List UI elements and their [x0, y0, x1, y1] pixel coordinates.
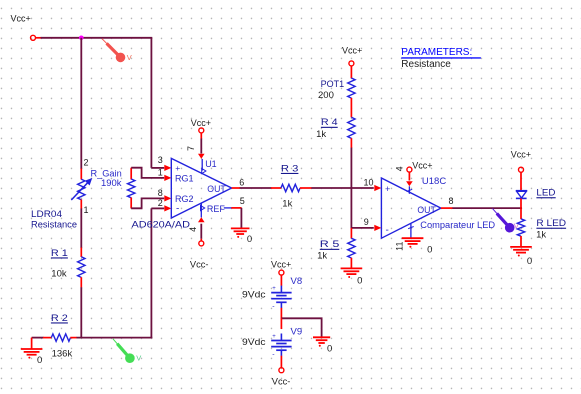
- battery V8 9Vdc: [271, 286, 291, 311]
- svg-text:OUT: OUT: [207, 184, 226, 194]
- svg-text:1: 1: [158, 168, 163, 178]
- svg-text:Vcc+: Vcc+: [191, 118, 211, 128]
- ground 0 (U1 REF): [231, 228, 252, 245]
- svg-text:8: 8: [158, 188, 163, 198]
- svg-text:R 5: R 5: [320, 239, 340, 249]
- U18C pin 8 output stub: [441, 207, 453, 209]
- pin number 4 U18C (rotated): [395, 166, 405, 171]
- pin number 7 (rotated): [186, 146, 196, 151]
- svg-text:4: 4: [188, 227, 198, 232]
- svg-text:Vcc-: Vcc-: [190, 260, 209, 270]
- svg-text:V8: V8: [291, 276, 303, 287]
- U18C label -: [386, 225, 389, 236]
- svg-text:POT1: POT1: [321, 79, 345, 89]
- potentiometer POT1 200: [348, 66, 355, 118]
- value 200: [318, 90, 334, 101]
- U1 pin7 inner stub: [202, 159, 206, 174]
- resistor R3 1k: [271, 184, 312, 191]
- reference designator U1: [205, 159, 217, 169]
- svg-text:PARAMETERS:: PARAMETERS:: [401, 47, 472, 58]
- svg-text:Vcc+: Vcc+: [11, 13, 31, 23]
- svg-text:1k: 1k: [282, 199, 292, 210]
- svg-text:REF: REF: [207, 204, 226, 214]
- svg-text:0: 0: [357, 275, 362, 286]
- op-amp U1 triangle: [171, 158, 231, 218]
- U1 label -: [176, 204, 179, 215]
- pin number 6: [239, 178, 244, 188]
- svg-text:190k: 190k: [101, 178, 122, 188]
- power symbol Vcc+ (top left): [11, 13, 42, 40]
- svg-text:-: -: [176, 204, 179, 215]
- label R 5: [320, 239, 340, 250]
- wire V9 to Vcc-: [280, 356, 282, 368]
- svg-text:R 3: R 3: [281, 163, 299, 173]
- pin number 1 (U1): [158, 168, 163, 178]
- U1 label RG2: [175, 194, 194, 204]
- pin number 4 (rotated): [188, 227, 198, 232]
- svg-text:2: 2: [84, 158, 89, 168]
- svg-text:0: 0: [427, 244, 432, 255]
- svg-text:V: V: [136, 354, 141, 363]
- svg-text:11: 11: [395, 242, 405, 251]
- wire R1 to bottom rail: [80, 287, 82, 338]
- value 1k (R4): [316, 129, 326, 140]
- pin number 11 (rotated): [395, 242, 405, 251]
- pin 1 arrow: [164, 175, 171, 181]
- svg-text:136k: 136k: [52, 349, 73, 360]
- comparator U18C triangle: [381, 178, 441, 238]
- wire bottom rail: [77, 337, 153, 339]
- pin number 5: [240, 196, 245, 206]
- label Comparateur LED: [420, 220, 495, 230]
- wire Vcc+ to pin 7: [198, 133, 205, 159]
- svg-text:-: -: [386, 225, 389, 236]
- pin number 1 (LDR04 bottom): [84, 205, 89, 215]
- svg-text:5: 5: [240, 196, 245, 206]
- ground 0 (V8/V9 node): [313, 337, 332, 354]
- wire Vcc+ to V8: [280, 275, 282, 286]
- svg-text:0: 0: [37, 355, 42, 366]
- wire R4 down across pin10 node: [350, 148, 352, 229]
- wire V8/V9 node to ground: [281, 318, 322, 337]
- svg-text:V9: V9: [291, 326, 303, 337]
- ground 0 (U18C): [402, 238, 433, 255]
- pin number 3: [158, 155, 163, 165]
- svg-text:0: 0: [527, 256, 532, 267]
- power symbol Vcc+ (POT1): [342, 46, 362, 66]
- pin number 10: [364, 177, 374, 187]
- svg-text:+: +: [175, 163, 180, 173]
- pin 8 arrow: [164, 195, 171, 201]
- U1 pin 5 REF wire: [224, 208, 242, 228]
- power symbol Vcc+ (U18C pin 4): [407, 160, 433, 172]
- ground 0 (R2): [21, 338, 43, 366]
- svg-text:V: V: [127, 53, 132, 62]
- svg-text:Resistance: Resistance: [401, 59, 451, 70]
- U1 pin 6 output stub: [232, 187, 240, 189]
- svg-text:Vcc+: Vcc+: [342, 46, 362, 56]
- gain resistor RG between RG1 and RG2: [128, 168, 135, 209]
- svg-text:1k: 1k: [317, 251, 327, 262]
- wire V8 to junction: [280, 308, 282, 319]
- power symbol Vcc+ (LED): [511, 149, 531, 172]
- U1 label OUT: [207, 184, 226, 194]
- svg-text:9Vdc: 9Vdc: [242, 337, 266, 348]
- svg-text:Vcc+: Vcc+: [412, 160, 432, 170]
- label Resistance (LDR04 value): [31, 220, 77, 230]
- value 1k (R_LED): [536, 230, 546, 241]
- value 1k (R3): [282, 199, 292, 210]
- wire hook RG bottom to pin 8: [131, 198, 164, 208]
- text PARAMETERS:: [401, 47, 481, 58]
- wire hook RG top to pin 1: [131, 168, 164, 178]
- label R 4: [321, 117, 338, 128]
- pin 9 arrow: [374, 225, 381, 231]
- label R LED: [536, 218, 566, 229]
- ground 0 (R_LED): [510, 247, 532, 267]
- wire R3 to U18C pin 10: [311, 187, 373, 189]
- power symbol Vcc- (V9): [272, 368, 291, 387]
- label R 3: [281, 163, 299, 174]
- svg-text:10k: 10k: [51, 269, 67, 280]
- svg-text:Vcc-: Vcc-: [272, 376, 291, 386]
- wire from Vcc+ rail down to LDR04: [80, 38, 82, 169]
- voltage probe V (purple) on LED node: [493, 209, 519, 233]
- svg-text:10: 10: [364, 177, 374, 187]
- pin number 8 (U18C): [449, 196, 454, 206]
- label R_Gain: [91, 169, 122, 179]
- svg-text:LED: LED: [536, 188, 556, 198]
- U18C label OUT: [417, 205, 436, 215]
- wire junction to V9: [280, 318, 282, 329]
- wire bottom rail up to U1 pin 2: [151, 208, 164, 338]
- label R 1: [51, 248, 68, 259]
- battery V9 9Vdc: [271, 334, 291, 359]
- svg-text:-: -: [272, 352, 275, 359]
- value 1k (R5): [317, 251, 327, 262]
- value 9Vdc (V9): [242, 337, 266, 348]
- junction at (81,38): [79, 36, 84, 41]
- variable resistor LDR04 R_Gain 190k: [71, 169, 92, 209]
- U1 label RG1: [175, 174, 194, 184]
- reference designator V9: [291, 326, 303, 337]
- pin 2 arrow: [164, 205, 171, 211]
- svg-text:1: 1: [84, 205, 89, 215]
- svg-text:0: 0: [247, 234, 252, 245]
- U1 pin 4 stub: [198, 203, 205, 222]
- voltage probe V (green) on bottom rail: [113, 339, 141, 363]
- value 136k: [52, 349, 73, 360]
- wire Vcc+ rail down to U1 pin 3: [151, 38, 164, 168]
- wire pin 4 to Vcc-: [200, 224, 202, 242]
- wire ground to R2: [32, 337, 44, 339]
- svg-text:-: -: [272, 304, 275, 311]
- pin number 9: [364, 217, 369, 227]
- pin number 2 (U1): [158, 198, 163, 208]
- reference designator U18C: [422, 176, 446, 187]
- label POT1: [321, 79, 345, 89]
- resistor R5 1k: [348, 228, 355, 269]
- value 10k: [51, 269, 67, 280]
- value 190k: [101, 178, 122, 188]
- pin 3 arrow: [164, 165, 171, 171]
- label AD620A/AD: [132, 219, 191, 230]
- svg-text:+: +: [272, 334, 276, 340]
- U18C label +: [385, 184, 390, 194]
- svg-text:R LED: R LED: [536, 218, 566, 228]
- svg-text:Resistance: Resistance: [31, 220, 77, 230]
- power symbol Vcc+ (V8): [271, 259, 291, 275]
- resistor R4 1k: [348, 117, 355, 148]
- svg-text:R 2: R 2: [51, 313, 68, 323]
- svg-text:1k: 1k: [536, 230, 546, 241]
- svg-text:200: 200: [318, 90, 334, 101]
- svg-text:U18C: U18C: [422, 176, 446, 187]
- svg-text:OUT: OUT: [417, 205, 436, 215]
- text Resistance (parameter): [401, 59, 451, 70]
- resistor R2 136k: [43, 334, 77, 341]
- svg-text:8: 8: [449, 196, 454, 206]
- svg-text:2: 2: [158, 198, 163, 208]
- U18C pin 4 wire: [406, 172, 413, 194]
- svg-text:4: 4: [395, 166, 405, 171]
- pin number 8 (U1): [158, 188, 163, 198]
- pin number 2 (LDR04 top): [84, 158, 89, 168]
- svg-text:9Vdc: 9Vdc: [242, 289, 266, 300]
- voltage probe V (red) on Vcc+ rail: [102, 39, 132, 63]
- U18C pin 11 stub: [408, 224, 414, 238]
- label R 2: [51, 313, 68, 324]
- value 9Vdc (V8): [242, 289, 266, 300]
- U1 label +: [175, 163, 180, 173]
- svg-text:3: 3: [158, 155, 163, 165]
- resistor R_LED 1k: [517, 219, 524, 247]
- svg-text:R 4: R 4: [321, 117, 338, 127]
- resistor R1 10k: [78, 248, 85, 288]
- pin 10 arrow: [374, 185, 381, 191]
- reference designator V8: [291, 276, 303, 287]
- svg-text:R 1: R 1: [51, 248, 68, 258]
- power symbol Vcc+ (U1 pin 7): [191, 118, 211, 133]
- svg-text:LDR04: LDR04: [31, 209, 62, 220]
- wire node to U18C pin 9: [351, 227, 373, 229]
- svg-text:Vcc+: Vcc+: [271, 259, 291, 269]
- ground 0 (R5): [341, 268, 363, 286]
- svg-text:6: 6: [239, 178, 244, 188]
- wire LED to node: [520, 198, 522, 219]
- svg-text:9: 9: [364, 217, 369, 227]
- wire Vcc+ top rail: [41, 37, 153, 39]
- svg-text:Comparateur LED: Comparateur LED: [420, 220, 495, 230]
- power symbol Vcc- (U1 pin 4): [190, 241, 209, 270]
- svg-text:+: +: [385, 184, 390, 194]
- wire U18C OUT to LED node: [452, 207, 522, 209]
- svg-text:RG1: RG1: [175, 174, 194, 184]
- svg-text:Vcc+: Vcc+: [511, 149, 531, 159]
- U1 label REF: [201, 204, 226, 214]
- label LED: [536, 188, 556, 199]
- LED diode: [516, 172, 527, 198]
- wire U1 OUT to R3: [240, 187, 272, 189]
- svg-text:+: +: [272, 286, 276, 292]
- svg-text:AD620A/AD: AD620A/AD: [132, 219, 191, 230]
- svg-text:7: 7: [186, 146, 196, 151]
- svg-text:RG2: RG2: [175, 194, 194, 204]
- svg-text:1k: 1k: [316, 129, 326, 140]
- label LDR04: [31, 209, 62, 220]
- svg-text:U1: U1: [205, 159, 217, 169]
- svg-text:0: 0: [327, 344, 332, 355]
- wire LDR04 to R1: [80, 209, 82, 249]
